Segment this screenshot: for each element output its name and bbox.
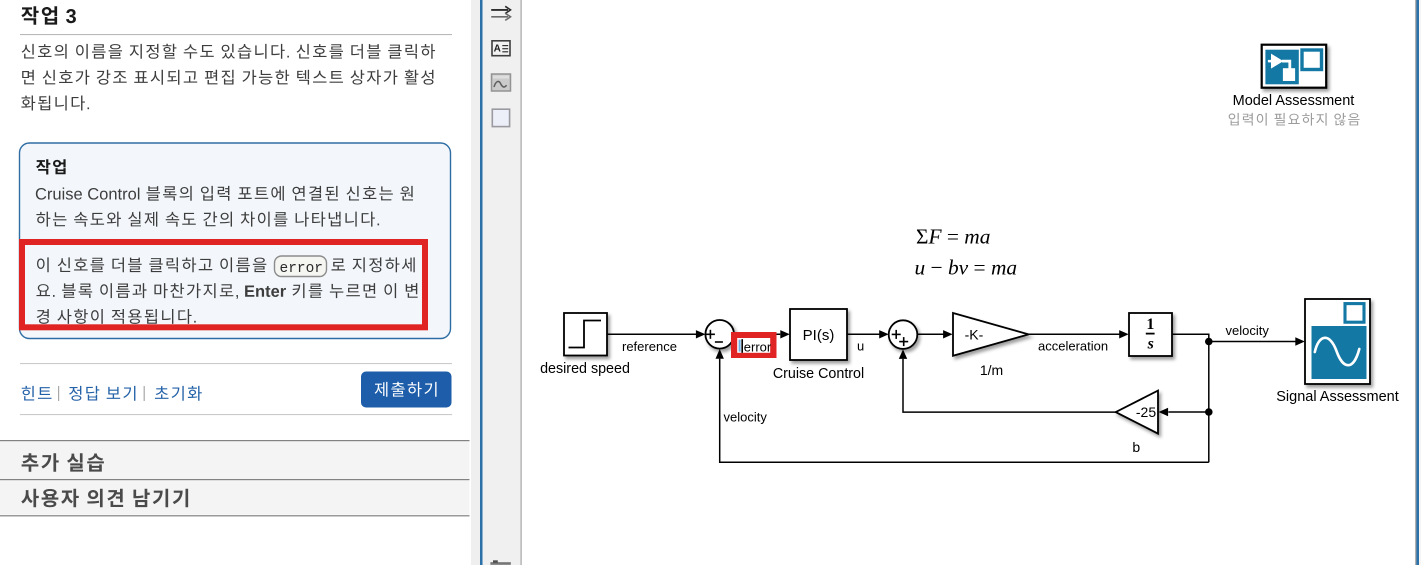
sum block Sum1: [705, 320, 734, 349]
svg-text:velocity: velocity: [724, 410, 768, 425]
left panel scrollbar gutter: [471, 0, 480, 565]
submit button: [361, 372, 452, 408]
svg-text:-25: -25: [1136, 404, 1156, 420]
task box (blue rounded): [20, 143, 451, 339]
red box line 2: [36, 283, 417, 299]
rule below links: [20, 414, 452, 415]
wire: integrator to node and Signal Assessment: [1172, 334, 1296, 341]
wire: vertical feedback drop: [1208, 342, 1210, 463]
toolbar icon: image: [492, 74, 511, 91]
Model Assessment block: [1262, 45, 1327, 88]
toolbar icon: annotation A: [492, 41, 510, 56]
task box line 2: [36, 212, 379, 227]
task box line 1: [36, 186, 413, 201]
gain block 1/m (-K-): [953, 313, 1029, 356]
title Task 3: [21, 6, 76, 25]
submit button label: [375, 382, 437, 397]
link reset: [155, 386, 202, 401]
section leave feedback: [21, 489, 188, 508]
svg-text:desired speed: desired speed: [540, 361, 630, 377]
paragraph line 1: [22, 44, 435, 59]
link hint: [22, 386, 52, 401]
svg-text:b: b: [1132, 439, 1140, 455]
node: branch junction at gain tap: [1205, 408, 1213, 416]
PI(s) block Cruise Control: [790, 309, 847, 360]
svg-text:Cruise Control: Cruise Control: [773, 366, 864, 382]
task box heading: [36, 159, 66, 174]
svg-text:s: s: [1147, 336, 1154, 353]
svg-text:reference: reference: [622, 339, 677, 354]
link separator bars: [58, 386, 59, 401]
svg-text:u − bv = ma: u − bv = ma: [915, 256, 1018, 280]
svg-text:PI(s): PI(s): [803, 327, 835, 344]
wire: sum2 to gain 1/m: [917, 333, 943, 335]
svg-text:1/m: 1/m: [980, 362, 1003, 378]
red highlight box: [19, 239, 428, 330]
toolbar icon: empty square: [492, 109, 509, 126]
inline code chip error: [275, 256, 327, 277]
section band: leave feedback: [0, 480, 470, 515]
svg-text:1: 1: [1146, 316, 1154, 333]
paragraph line 3: [21, 96, 89, 111]
model assessment subtitle: [1229, 113, 1360, 126]
paragraph line 2: [22, 70, 433, 85]
svg-text:error: error: [744, 340, 772, 355]
toolbar strip: [483, 0, 521, 565]
svg-text:acceleration: acceleration: [1038, 339, 1108, 354]
rule above links: [20, 363, 452, 364]
integrator block 1/s: [1129, 313, 1172, 356]
Signal Assessment block: [1305, 299, 1370, 384]
wire: gain b output to sum2 bottom: [903, 359, 1116, 412]
wire: gain to integrator: [1029, 333, 1120, 335]
wire: node to gain b input: [1168, 411, 1209, 413]
gain block b (-25) pointing left: [1116, 391, 1158, 434]
wire: bottom feedback to sum1: [720, 359, 1209, 463]
divider blue line: [480, 0, 483, 565]
red highlighted signal name editor (error): [731, 332, 777, 358]
wire: sum1 to PI (passes behind error box): [734, 333, 780, 335]
step block (desired speed): [564, 313, 607, 356]
section band: further practice: [0, 441, 470, 479]
red box line 1a: [37, 257, 266, 272]
svg-text:Signal Assessment: Signal Assessment: [1276, 389, 1399, 405]
link show answer: [69, 386, 135, 401]
right border gray line: [1415, 0, 1416, 565]
red box line 3: [37, 309, 196, 324]
section further practice: [22, 453, 104, 472]
svg-text:velocity: velocity: [1226, 323, 1270, 338]
svg-text:A: A: [494, 44, 501, 55]
toolbar icon: signal routing arrows: [491, 6, 510, 20]
toolbar icon bottom partial (folder top): [493, 560, 498, 562]
wire: PI to sum2: [847, 333, 880, 335]
svg-text:error: error: [280, 261, 324, 277]
svg-text:u: u: [857, 339, 864, 354]
node: branch junction top: [1205, 338, 1213, 346]
svg-text:ΣF = ma: ΣF = ma: [916, 225, 990, 249]
right border blue line: [1416, 0, 1419, 565]
svg-text:-K-: -K-: [965, 326, 984, 342]
wire: step to sum1: [607, 333, 697, 335]
title underline rule: [20, 34, 452, 35]
red box line 1b: [331, 257, 414, 272]
svg-text:Model Assessment: Model Assessment: [1233, 93, 1355, 109]
sum block Sum2: [889, 320, 918, 349]
